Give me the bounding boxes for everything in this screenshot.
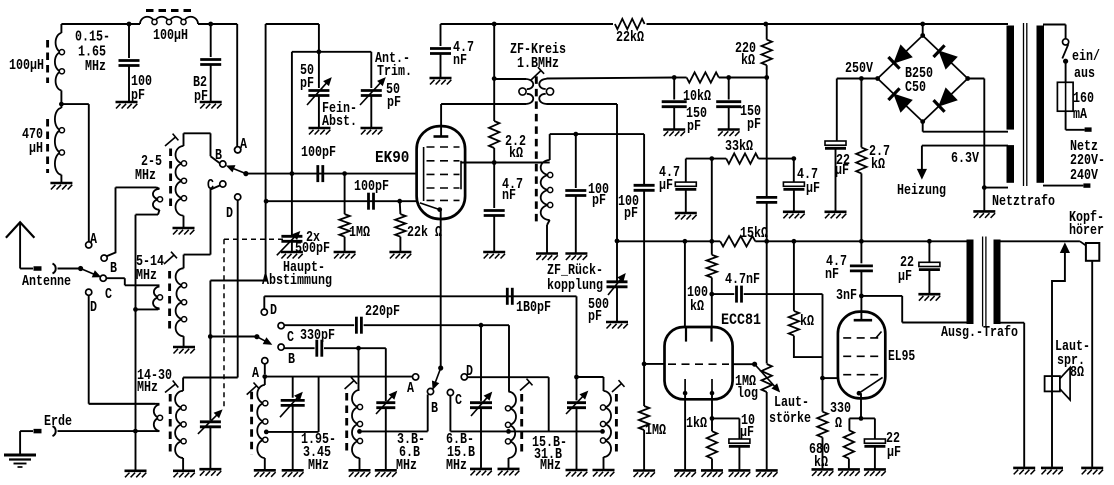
svg-text:EK90: EK90	[375, 149, 409, 168]
svg-text:pF: pF	[747, 116, 761, 133]
svg-text:B: B	[215, 147, 222, 164]
svg-text:nF: nF	[825, 266, 839, 283]
svg-text:B: B	[288, 351, 295, 368]
svg-text:22kΩ: 22kΩ	[616, 29, 644, 46]
svg-text:aus: aus	[1074, 65, 1095, 82]
svg-text:6.3V: 6.3V	[951, 150, 979, 167]
svg-text:ECC81: ECC81	[721, 311, 761, 329]
svg-text:kopplung: kopplung	[547, 277, 603, 294]
svg-text:C: C	[105, 286, 112, 303]
svg-text:D: D	[270, 302, 277, 319]
svg-text:A: A	[407, 380, 414, 397]
svg-text:250V: 250V	[845, 60, 873, 77]
svg-text:8Ω: 8Ω	[1070, 364, 1084, 381]
svg-text:1MΩ: 1MΩ	[349, 224, 370, 241]
svg-text:Abst.: Abst.	[322, 113, 357, 130]
svg-text:100µH: 100µH	[9, 57, 44, 74]
svg-text:3nF: 3nF	[836, 287, 857, 304]
svg-text:MHz: MHz	[540, 457, 561, 474]
svg-text:log: log	[737, 385, 758, 402]
svg-text:MHz: MHz	[446, 457, 467, 474]
svg-text:EL95: EL95	[888, 348, 915, 365]
svg-text:µF: µF	[887, 444, 901, 461]
svg-text:D: D	[466, 363, 473, 380]
svg-text:µF: µF	[806, 180, 820, 197]
svg-text:1.BMHz: 1.BMHz	[517, 55, 559, 72]
svg-text:Heizung: Heizung	[897, 182, 946, 199]
svg-text:C: C	[455, 392, 462, 409]
svg-text:nF: nF	[453, 52, 467, 69]
svg-text:Erde: Erde	[44, 413, 72, 430]
svg-text:kΩ: kΩ	[871, 156, 885, 173]
svg-text:kΩ: kΩ	[509, 145, 523, 162]
svg-text:C: C	[207, 177, 214, 194]
svg-text:µF: µF	[898, 268, 912, 285]
svg-text:kΩ: kΩ	[800, 313, 814, 330]
svg-text:pF: pF	[387, 94, 401, 111]
svg-text:100pF: 100pF	[354, 178, 389, 195]
svg-text:22k Ω: 22k Ω	[407, 224, 442, 241]
svg-text:15kΩ: 15kΩ	[740, 225, 768, 242]
svg-text:100pF: 100pF	[301, 144, 336, 161]
svg-text:240V: 240V	[1070, 167, 1098, 184]
svg-text:pF: pF	[194, 88, 208, 105]
svg-text:B: B	[431, 400, 438, 417]
svg-text:160: 160	[1073, 90, 1094, 107]
svg-text:µF: µF	[835, 162, 849, 179]
svg-text:33kΩ: 33kΩ	[725, 138, 753, 155]
svg-text:hörer: hörer	[1069, 222, 1104, 239]
svg-text:500pF: 500pF	[295, 240, 330, 257]
svg-text:1kΩ: 1kΩ	[686, 415, 707, 432]
svg-text:pF: pF	[300, 75, 314, 92]
svg-text:kΩ: kΩ	[690, 298, 704, 315]
svg-text:nF: nF	[502, 187, 516, 204]
svg-text:MHz: MHz	[396, 457, 417, 474]
svg-text:MHz: MHz	[85, 58, 106, 75]
svg-text:D: D	[90, 299, 97, 316]
svg-text:A: A	[240, 136, 247, 153]
svg-text:MHz: MHz	[135, 167, 156, 184]
svg-text:C50: C50	[905, 79, 926, 96]
svg-text:B: B	[110, 260, 117, 277]
svg-text:pF: pF	[624, 205, 638, 222]
svg-text:220pF: 220pF	[365, 303, 400, 320]
svg-text:A: A	[90, 231, 97, 248]
svg-text:100µH: 100µH	[153, 27, 188, 44]
svg-text:störke: störke	[769, 410, 811, 427]
svg-text:10kΩ: 10kΩ	[683, 88, 711, 105]
svg-text:Laut-: Laut-	[774, 394, 809, 411]
svg-text:mA: mA	[1073, 106, 1087, 123]
svg-text:Antenne: Antenne	[22, 273, 71, 290]
svg-text:kΩ: kΩ	[741, 52, 755, 69]
svg-text:MHz: MHz	[308, 457, 329, 474]
svg-text:Ausg.-Trafo: Ausg.-Trafo	[941, 324, 1018, 341]
svg-text:µF: µF	[740, 424, 754, 441]
svg-text:µF: µF	[659, 177, 673, 194]
svg-text:µH: µH	[29, 140, 43, 157]
svg-text:Abstimmung: Abstimmung	[262, 272, 332, 289]
svg-text:Trim.: Trim.	[377, 63, 412, 80]
svg-text:pF: pF	[588, 308, 602, 325]
svg-text:Netztrafo: Netztrafo	[992, 193, 1055, 210]
svg-text:MHz: MHz	[137, 379, 158, 396]
svg-text:pF: pF	[687, 118, 701, 135]
svg-text:Ω: Ω	[835, 415, 842, 432]
svg-text:pF: pF	[131, 87, 145, 104]
svg-text:pF: pF	[592, 192, 606, 209]
svg-text:1B0pF: 1B0pF	[516, 299, 551, 316]
svg-text:4.7nF: 4.7nF	[725, 271, 760, 288]
svg-text:D: D	[226, 205, 233, 222]
svg-text:A: A	[252, 365, 259, 382]
svg-text:MHz: MHz	[136, 267, 157, 284]
svg-text:1MΩ: 1MΩ	[645, 422, 666, 439]
svg-text:330pF: 330pF	[300, 327, 335, 344]
svg-text:kΩ: kΩ	[814, 454, 828, 471]
svg-text:ein/: ein/	[1072, 48, 1100, 65]
svg-text:C: C	[287, 329, 294, 346]
